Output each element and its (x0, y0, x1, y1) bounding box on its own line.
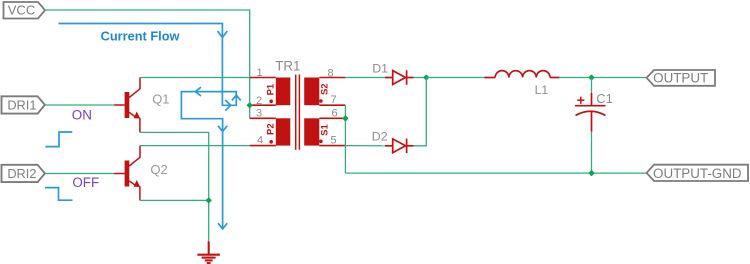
svg-text:OUTPUT: OUTPUT (653, 71, 708, 86)
svg-text:2: 2 (256, 95, 262, 107)
svg-text:D2: D2 (372, 129, 388, 143)
rising-edge waveform glyph (45, 132, 72, 147)
wire TR1 pin8 to D1 anode (345, 77, 387, 79)
svg-text:8: 8 (328, 68, 334, 80)
pin 2 stub (250, 104, 276, 106)
plus sign (577, 99, 584, 101)
svg-text:1: 1 (257, 67, 263, 79)
svg-text:D1: D1 (372, 61, 388, 75)
inductor L1 (485, 71, 560, 78)
top plate (575, 105, 606, 107)
transformer TR1 (250, 58, 346, 149)
phase dot P1 (269, 100, 273, 104)
input flag DRI1 (2, 96, 45, 113)
svg-text:4: 4 (257, 135, 263, 147)
svg-text:DRI1: DRI1 (7, 97, 36, 112)
pin 4 stub (250, 145, 276, 147)
phase dot S2 (319, 99, 323, 103)
phase dot S1 (319, 140, 323, 144)
wire C1 bottom (591, 132, 593, 174)
node junction at C1 top (588, 74, 595, 81)
wire C1 top (591, 78, 593, 94)
winding S1 (304, 118, 319, 145)
winding P2 (276, 118, 291, 145)
transistor Q1 (NPN) (114, 78, 140, 133)
core lines (295, 75, 297, 150)
wire DRI1 to Q1 base (45, 104, 114, 106)
wire TR1 pin7 down to pin6 node (344, 105, 346, 173)
svg-text:VCC: VCC (8, 3, 35, 18)
svg-text:P1: P1 (266, 83, 277, 95)
pin 5 stub (319, 145, 345, 147)
svg-text:L1: L1 (535, 83, 549, 97)
emitter arrowhead (134, 112, 141, 119)
wire Q2 emitter to ground node (140, 199, 209, 201)
arrowhead up (232, 95, 241, 100)
base bar (125, 161, 130, 187)
capacitor C1 (polarized) (575, 78, 606, 174)
wire Q2 collector to TR1 pin4 (140, 145, 250, 147)
base lead (114, 104, 124, 106)
svg-text:5: 5 (331, 135, 337, 147)
svg-text:ON: ON (72, 107, 92, 122)
winding S2 (304, 78, 319, 106)
svg-text:C1: C1 (596, 91, 613, 106)
ground symbol (197, 241, 220, 263)
wire DRI2 to Q2 base (45, 173, 114, 175)
wire Q1 emitter to ground rail (140, 132, 209, 241)
diode D1 (385, 70, 414, 85)
arrowhead down at ground (218, 223, 227, 229)
collector (129, 146, 140, 166)
base bar (125, 92, 130, 118)
wire secondary center tap to OUTPUT-GND rail (345, 172, 646, 174)
svg-text:6: 6 (332, 108, 338, 120)
svg-text:S2: S2 (319, 83, 330, 95)
svg-text:Q1: Q1 (152, 92, 169, 107)
arrowhead right at corner (225, 100, 231, 111)
wire L1 to OUTPUT (559, 77, 647, 79)
node junction at TR1 pin2 (VCC center tap) (246, 102, 253, 109)
arrowhead down mid (218, 126, 227, 132)
node junction at C1 bottom (588, 170, 595, 177)
bottom plate (arc) (576, 111, 606, 115)
output flag OUTPUT-GND (647, 165, 748, 181)
wire TR1 pin5 to D2 anode (345, 145, 387, 147)
power flag VCC (4, 2, 46, 19)
wire Q1 collector to TR1 pin1 (140, 77, 250, 79)
svg-text:Q2: Q2 (150, 162, 167, 177)
arrowhead down near top (218, 31, 228, 38)
input flag DRI2 (2, 165, 45, 182)
pin 3 stub (250, 117, 276, 119)
current flow arrow (blue polyline from VCC down into TR1) (59, 24, 241, 229)
emitter arrowhead (134, 180, 141, 187)
pin 1 stub (250, 77, 276, 79)
pin 6 stub (319, 117, 345, 119)
output flag OUTPUT (647, 70, 715, 86)
node junction at emitters (205, 197, 212, 204)
wire node down to D2 cathode (414, 78, 427, 146)
wire VCC net (45, 10, 250, 118)
wire D1 node to L1 (426, 77, 486, 79)
pin 8 stub (319, 77, 345, 79)
base lead (114, 173, 124, 175)
svg-text:OFF: OFF (72, 175, 99, 190)
winding P1 (276, 78, 291, 106)
svg-text:P2: P2 (266, 123, 277, 135)
svg-text:TR1: TR1 (275, 58, 300, 73)
phase dot P2 (269, 140, 273, 144)
transistor Q2 (NPN) (114, 146, 140, 201)
node junction at TR1 pin6 (secondary center tap) (342, 115, 349, 122)
svg-text:3: 3 (256, 108, 262, 120)
collector (129, 78, 140, 98)
svg-text:7: 7 (331, 94, 337, 106)
svg-text:DRI2: DRI2 (7, 166, 36, 181)
falling-edge waveform glyph (45, 188, 73, 201)
node junction at D1 cathode (423, 74, 430, 81)
svg-text:S1: S1 (319, 123, 330, 135)
emitter (129, 181, 135, 186)
arrowhead left (195, 87, 201, 96)
pin 7 stub (319, 104, 345, 106)
diode D2 (385, 139, 414, 154)
wire D1 cathode to node (414, 77, 427, 79)
svg-text:OUTPUT-GND: OUTPUT-GND (653, 166, 742, 181)
svg-text:Current Flow: Current Flow (101, 29, 180, 44)
emitter (129, 112, 135, 117)
